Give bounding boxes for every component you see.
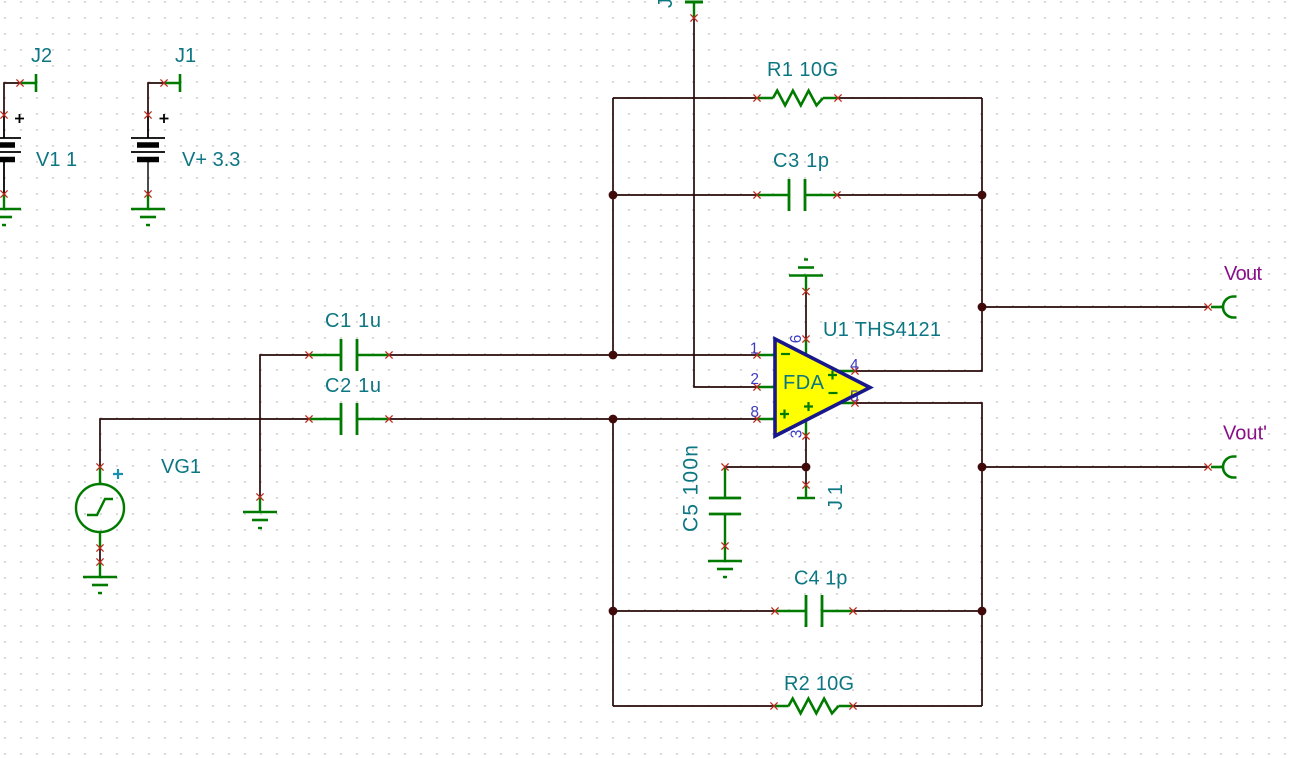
svg-text:VG1: VG1 bbox=[161, 456, 201, 478]
svg-text:Vout': Vout' bbox=[1223, 423, 1267, 445]
svg-text:6: 6 bbox=[788, 335, 805, 344]
svg-text:R1 10G: R1 10G bbox=[767, 59, 838, 81]
svg-text:FDA: FDA bbox=[783, 372, 825, 394]
svg-text:4: 4 bbox=[850, 357, 859, 374]
svg-text:3: 3 bbox=[789, 430, 806, 439]
svg-text:C3 1p: C3 1p bbox=[773, 150, 829, 172]
svg-text:8: 8 bbox=[750, 404, 759, 421]
svg-text:C2 1u: C2 1u bbox=[325, 375, 381, 397]
svg-text:J3: J3 bbox=[655, 0, 677, 8]
svg-text:U1 THS4121: U1 THS4121 bbox=[823, 319, 941, 341]
svg-text:J2: J2 bbox=[31, 45, 52, 67]
svg-text:V+ 3.3: V+ 3.3 bbox=[182, 149, 240, 171]
svg-text:C1 1u: C1 1u bbox=[325, 310, 381, 332]
svg-text:C4 1p: C4 1p bbox=[794, 568, 847, 590]
svg-text:R2 10G: R2 10G bbox=[784, 673, 854, 695]
svg-text:Vout: Vout bbox=[1224, 263, 1262, 285]
svg-text:J1: J1 bbox=[175, 45, 196, 67]
svg-text:V1 1: V1 1 bbox=[36, 149, 77, 171]
svg-text:1: 1 bbox=[750, 341, 759, 358]
svg-text:2: 2 bbox=[750, 371, 759, 388]
svg-text:C5 100n: C5 100n bbox=[680, 445, 703, 532]
